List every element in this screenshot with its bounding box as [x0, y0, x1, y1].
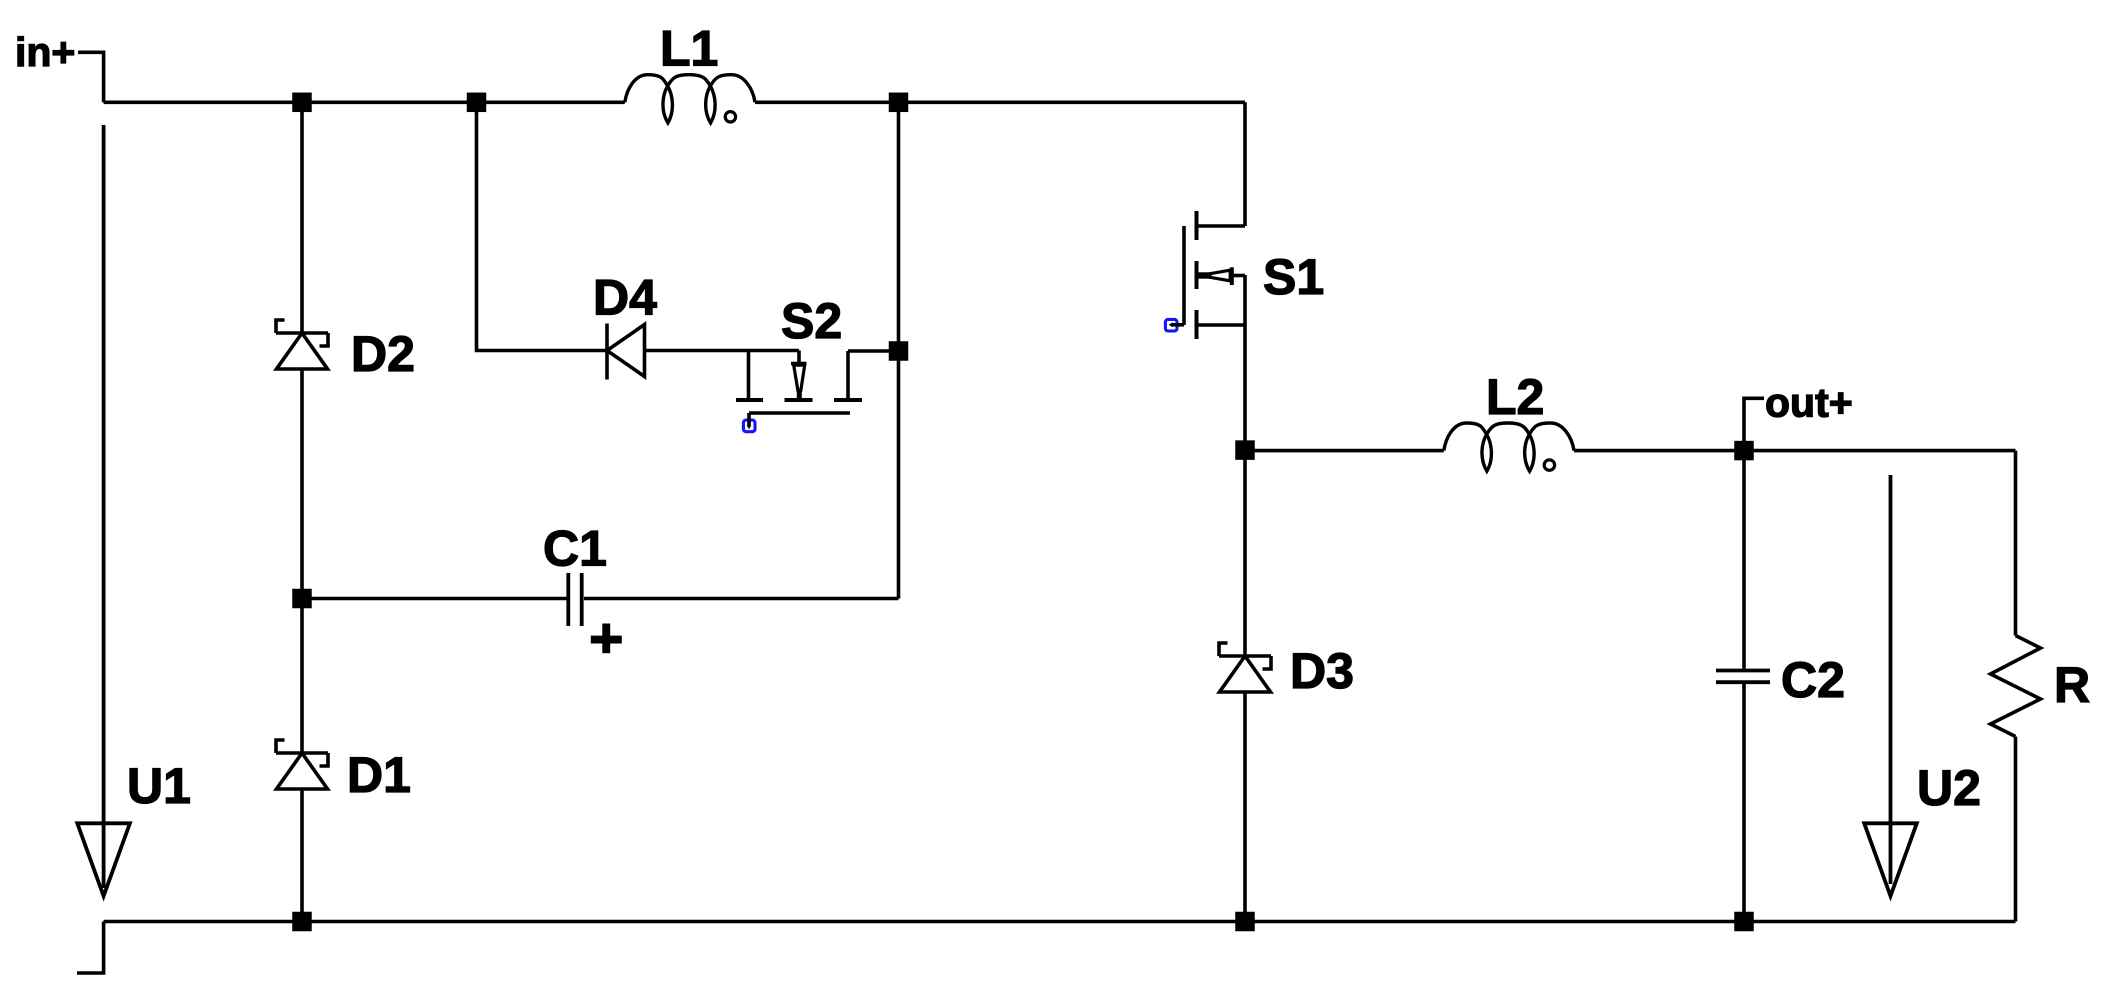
- wire S1 drain: [1243, 102, 1247, 226]
- voltage source U1: [77, 125, 191, 896]
- wire D3 bottom: [1243, 691, 1247, 922]
- node junction bus-D3: [1235, 912, 1255, 932]
- wire D2-D1: [300, 369, 304, 754]
- node junction S2-C1rail: [889, 341, 909, 361]
- svg-text:S2: S2: [781, 293, 842, 349]
- node junction top-D4: [467, 93, 487, 113]
- inductor L1: [625, 21, 755, 123]
- node in+ label: [15, 29, 75, 75]
- wire C1 left: [302, 597, 568, 601]
- svg-text:L1: L1: [660, 21, 718, 77]
- wire R top: [2014, 451, 2018, 636]
- svg-text:U2: U2: [1917, 760, 1981, 816]
- svg-text:R: R: [2054, 657, 2090, 713]
- node junction top-D2: [292, 93, 312, 113]
- wire R bottom: [2014, 737, 2018, 922]
- voltage source U2: [1864, 475, 1981, 896]
- transistor S1: [1165, 211, 1324, 339]
- wire C1 right: [584, 597, 899, 601]
- zener diode D2: [276, 320, 415, 382]
- zener diode D3: [1219, 643, 1354, 699]
- svg-text:C2: C2: [1781, 652, 1845, 708]
- svg-text:D4: D4: [593, 270, 657, 326]
- svg-text:out+: out+: [1765, 380, 1853, 426]
- zener diode D1: [276, 740, 411, 803]
- transistor S2: [736, 293, 862, 432]
- wire in+ lead: [78, 52, 104, 102]
- wire L2 left: [1245, 449, 1444, 453]
- svg-text:S1: S1: [1263, 249, 1324, 305]
- wire in- lead: [77, 922, 104, 974]
- node junction bus-C2: [1734, 912, 1754, 932]
- wire S1 source rail: [1243, 275, 1247, 450]
- wire D2 top: [300, 102, 304, 333]
- node out+ label: [1744, 380, 1853, 451]
- node junction S1-L2: [1235, 440, 1255, 460]
- wire C2 top: [1742, 451, 1746, 669]
- wire top bus left: [104, 101, 625, 105]
- node junction C1-left: [292, 589, 312, 609]
- svg-text:U1: U1: [127, 758, 191, 814]
- svg-text:L2: L2: [1486, 369, 1544, 425]
- node junction top-C1rail: [889, 93, 909, 113]
- resistor R: [1991, 636, 2091, 737]
- wire D4-S2: [645, 349, 800, 353]
- capacitor C1: [543, 521, 622, 654]
- wire bottom bus: [104, 920, 2016, 924]
- wire S1-D3: [1243, 451, 1247, 656]
- diode D4: [593, 270, 657, 380]
- wire C1 rail: [897, 102, 901, 598]
- svg-text:C1: C1: [543, 521, 607, 577]
- wire C2 bottom: [1742, 684, 1746, 922]
- node junction out+: [1734, 441, 1754, 461]
- svg-text:D1: D1: [347, 747, 411, 803]
- wire top bus right: [755, 101, 1245, 105]
- svg-text:in+: in+: [15, 29, 75, 75]
- wire L2 right: [1574, 449, 2016, 453]
- capacitor C2: [1716, 652, 1845, 708]
- wire S2-junction: [848, 349, 899, 353]
- svg-text:D2: D2: [351, 326, 415, 382]
- svg-text:D3: D3: [1290, 643, 1354, 699]
- wire D4 feed: [477, 102, 608, 350]
- node junction bus-D1: [292, 912, 312, 932]
- wire D1 bottom: [300, 790, 304, 922]
- inductor L2: [1444, 369, 1574, 471]
